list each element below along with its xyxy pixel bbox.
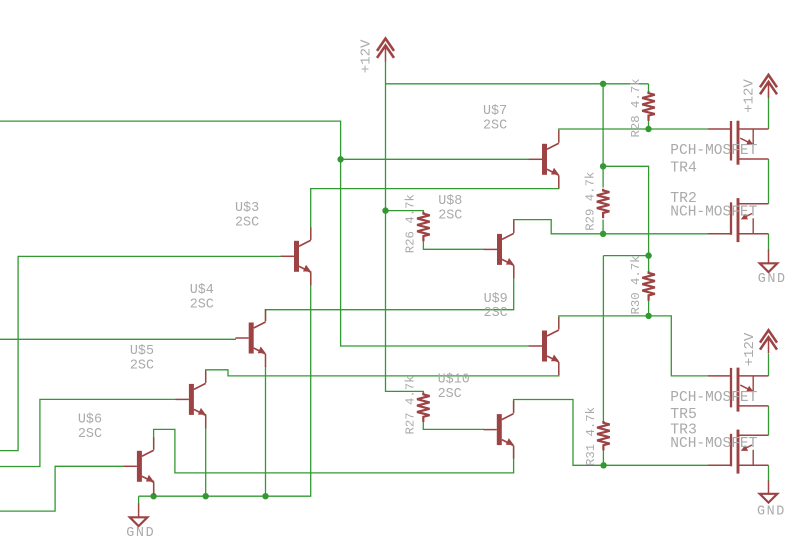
wire [768,234,770,250]
wire [0,121,529,346]
wire [648,301,650,316]
svg-text:2SC: 2SC [438,209,462,224]
junction [645,126,651,132]
wire [386,83,649,85]
resistor R29 [597,189,610,218]
wire [341,158,529,160]
svg-text:U$10: U$10 [438,372,470,387]
svg-text:2SC: 2SC [190,297,214,312]
wire [602,84,604,188]
transistor TR5 [708,368,769,412]
wire [559,316,708,376]
svg-text:2SC: 2SC [438,387,462,402]
wire [768,159,770,204]
svg-text:U$4: U$4 [190,283,214,298]
wire [602,450,604,465]
junction [262,493,268,499]
transistor TR4 [708,121,769,165]
junction [600,163,606,169]
svg-text:NCH-MOSFET: NCH-MOSFET [670,204,757,220]
wire [768,406,770,435]
svg-text:R31 4.7k: R31 4.7k [584,407,598,466]
transistor U$4 [235,309,265,367]
svg-text:GND: GND [757,505,786,520]
svg-text:TR4: TR4 [670,160,697,176]
wire [768,354,770,376]
wire [514,400,708,466]
junction [337,156,343,162]
wire [603,166,649,255]
svg-text:+12V: +12V [742,79,758,113]
svg-text:GND: GND [758,272,787,287]
svg-text:U$5: U$5 [130,344,154,359]
wire [648,84,650,93]
svg-text:PCH-MOSFET: PCH-MOSFET [670,390,757,406]
svg-text:NCH-MOSFET: NCH-MOSFET [670,436,757,452]
svg-text:R27 4.7k: R27 4.7k [403,375,417,434]
svg-text:U$6: U$6 [78,412,102,427]
wire [311,176,559,240]
transistor U$6 [124,437,154,495]
svg-text:U$8: U$8 [438,194,462,209]
wire [0,399,176,466]
svg-text:R30 4.7k: R30 4.7k [629,255,643,314]
junction [645,313,651,319]
ground [130,503,148,526]
wire [648,256,650,272]
wire [423,421,484,430]
svg-text:TR5: TR5 [670,407,697,423]
resistor R31 [597,421,610,450]
junction [150,493,156,499]
resistor R30 [642,271,655,300]
wire [0,338,236,340]
wire [266,266,514,321]
wire [514,220,708,234]
wire [602,220,604,234]
ground [760,250,778,273]
svg-text:U$9: U$9 [484,292,508,307]
wire [386,61,424,395]
supply +12V [377,39,394,62]
junction [600,462,606,468]
transistor U$5 [176,370,206,428]
svg-text:U$7: U$7 [483,104,507,119]
wire [205,414,207,496]
transistor U$7 [529,130,559,188]
transistor U$8 [484,220,514,278]
wire [154,429,514,473]
transistor U$9 [529,317,559,375]
wire [139,271,311,496]
resistor R27 [417,393,430,422]
resistor R26 [417,212,430,241]
wire [386,211,424,214]
wire [0,466,125,511]
wire [648,121,650,130]
wire [206,362,559,382]
svg-text:+12V: +12V [358,39,374,73]
svg-text:R26 4.7k: R26 4.7k [403,194,417,253]
junction [645,252,651,258]
wire [265,366,267,496]
svg-text:R29 4.7k: R29 4.7k [584,172,598,231]
svg-text:2SC: 2SC [483,118,507,133]
svg-text:PCH-MOSFET: PCH-MOSFET [670,143,757,159]
transistor TR3 [708,430,769,474]
transistor U$3 [281,227,311,285]
resistor R28 [642,91,655,120]
wire [603,255,648,257]
wire [768,465,770,481]
transistor U$10 [484,401,514,459]
svg-text:2SC: 2SC [78,427,102,442]
svg-text:2SC: 2SC [484,306,508,321]
svg-text:2SC: 2SC [235,215,259,230]
svg-text:U$3: U$3 [235,201,259,216]
wire [423,240,484,250]
svg-text:R28 4.7k: R28 4.7k [629,78,643,137]
junction [203,493,209,499]
junction [382,207,388,213]
supply +12V [760,330,777,353]
junction [600,231,606,237]
transistor TR2 [708,198,769,242]
wire [153,481,155,497]
svg-text:+12V: +12V [742,332,758,366]
ground [760,481,778,503]
wire [138,496,140,504]
svg-text:GND: GND [126,526,155,541]
wire [559,129,708,131]
wire [602,256,604,421]
wire [0,256,282,450]
supply +12V [760,75,777,98]
junction [600,81,606,87]
wire [768,92,770,130]
svg-text:2SC: 2SC [130,359,154,374]
